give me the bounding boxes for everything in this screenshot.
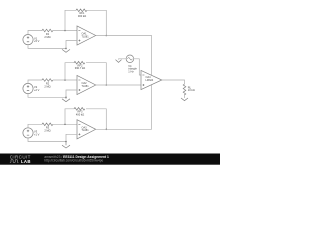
voltage source V1 (23, 35, 33, 45)
wire feedback left vertical stage1 (65, 10, 76, 30)
resistor R3 (42, 123, 53, 126)
logo waveform (10, 160, 19, 163)
op-amp OA2 (77, 75, 96, 94)
footer title text (44, 155, 109, 159)
node junction feedback tap stage1 (64, 30, 66, 32)
label OA4 part (146, 76, 154, 82)
footer url text (44, 159, 103, 163)
wire OA2 output to comparator noninverting input (96, 84, 141, 86)
svg-text:LAB: LAB (21, 159, 31, 164)
node junction ground stage1 (65, 48, 67, 50)
resistor RF3 (74, 108, 85, 111)
wire V1 bottom rail (28, 45, 66, 49)
resistor R1 (42, 29, 53, 32)
svg-text:2 MΩ: 2 MΩ (44, 84, 50, 88)
op-amp OA1 (77, 26, 96, 45)
resistor RF1 (76, 9, 87, 12)
svg-text:10 kΩ: 10 kΩ (188, 88, 195, 92)
label R3 value (44, 126, 50, 133)
wire R2 to OA2 inverting input (53, 79, 77, 81)
svg-text:2 MΩ: 2 MΩ (44, 129, 50, 133)
wire OA3 noninverting input to ground (66, 134, 77, 141)
node junction output stage1 (106, 35, 108, 37)
node junction ground stage2 (65, 97, 67, 99)
label V3 value (34, 130, 40, 137)
voltage source V2 (23, 83, 33, 93)
resistor R2 (42, 79, 53, 82)
svg-text:300 kΩ: 300 kΩ (78, 14, 86, 18)
ground stage3 (62, 142, 70, 149)
svg-text:http://circuitlab.com/circuit/: http://circuitlab.com/circuit/c6vm55mw4p… (44, 159, 103, 163)
node junction feedback tap stage3 (64, 124, 66, 126)
wire V1 top to R1 (28, 31, 42, 35)
svg-text:400 kΩ: 400 kΩ (76, 112, 84, 116)
wire V4 to comparator inverting input (134, 59, 142, 75)
footer bar (0, 154, 220, 165)
label V1 value (34, 36, 40, 43)
op-amp OA4 comparator (141, 70, 162, 89)
svg-text:TL081: TL081 (82, 129, 90, 132)
node junction ground stage3 (65, 141, 67, 143)
label RF3 value (76, 110, 84, 117)
wire V3 bottom rail (28, 138, 66, 142)
svg-text:390.7 kΩ: 390.7 kΩ (75, 66, 86, 70)
wire V4 to ground (119, 58, 127, 61)
svg-text:+5 V: +5 V (34, 39, 40, 43)
ground stage2 (62, 97, 70, 101)
label RF2 value (75, 64, 86, 71)
svg-text:LM324: LM324 (146, 79, 154, 82)
node junction feedback tap stage2 (64, 79, 66, 81)
svg-text:TL081: TL081 (82, 85, 90, 88)
wire OA2 noninverting input to ground (66, 90, 77, 97)
wire feedback left vertical stage3 (65, 109, 74, 125)
wire RL to ground (184, 94, 186, 98)
resistor RF2 (74, 61, 85, 64)
ground stage1 (62, 48, 70, 52)
svg-text:+2 V: +2 V (34, 88, 40, 92)
wire R1 to OA1 inverting input (53, 30, 77, 32)
svg-text:+1 V: +1 V (34, 133, 40, 137)
label V4 value (128, 64, 137, 74)
logo CircuitLab (10, 155, 31, 160)
wire OA1 output to comparator V+ (96, 36, 152, 76)
svg-text:TL081: TL081 (82, 35, 90, 38)
node junction output stage2 (106, 84, 108, 86)
wire OA4 output to RL (162, 80, 185, 84)
ground RL (181, 98, 188, 101)
wire RF1 to output vertical stage1 (87, 10, 106, 35)
resistor RL (183, 84, 186, 95)
svg-text:1 Hz: 1 Hz (128, 69, 134, 73)
label V2 value (34, 85, 40, 92)
voltage source V4 triangle generator (126, 55, 134, 63)
wire feedback left vertical stage2 (65, 63, 74, 80)
logo LAB (21, 159, 31, 164)
voltage source V3 (23, 128, 33, 138)
node junction output stage3 (106, 129, 108, 131)
wire RF3 to output vertical stage3 (86, 109, 106, 130)
label R1 value (44, 32, 50, 39)
wire OA3 output to comparator V- (96, 85, 152, 129)
wire RF2 to output vertical stage2 (86, 63, 106, 85)
wire OA1 noninverting input to ground (66, 41, 77, 49)
wire V2 bottom rail (28, 94, 66, 98)
svg-text:2 MΩ: 2 MΩ (44, 35, 50, 39)
label R2 value (44, 81, 50, 88)
wire V2 top to R2 (28, 80, 42, 83)
wire V3 top to R3 (28, 124, 42, 128)
label OA3 part (82, 127, 90, 133)
label OA2 part (82, 82, 90, 88)
label OA1 part (82, 33, 90, 39)
label RF1 value (78, 11, 86, 18)
op-amp OA3 (77, 120, 96, 139)
wire R3 to OA3 inverting input (53, 123, 77, 125)
label RL value (188, 85, 195, 92)
ground V4 (116, 60, 122, 63)
